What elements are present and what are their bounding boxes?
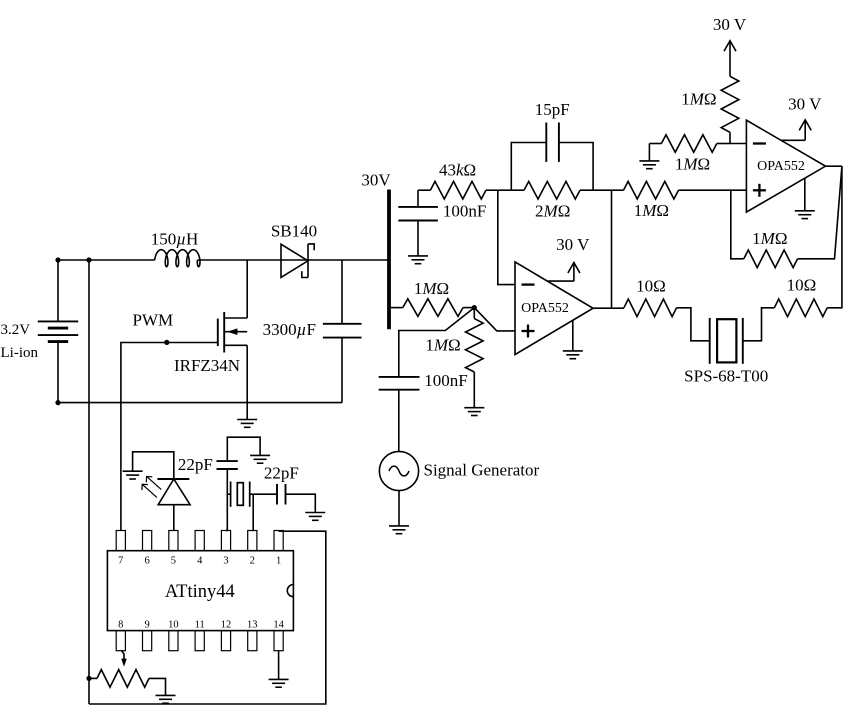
svg-text:1MΩ: 1MΩ [675, 155, 710, 174]
label 22pF C5 [178, 455, 213, 474]
node battery positive [55, 257, 60, 262]
svg-text:100nF: 100nF [424, 371, 467, 390]
wire feedback mid [498, 189, 524, 191]
svg-text:22pF: 22pF [264, 463, 299, 482]
svg-text:9: 9 [144, 619, 149, 630]
label 43kOhm [439, 161, 476, 180]
svg-text:1MΩ: 1MΩ [752, 229, 787, 248]
wire bottom rail [58, 402, 342, 404]
transistor Q1 IRFZ34N nmos [218, 312, 247, 420]
node 3.2V rail tap [86, 257, 91, 262]
capacitor C1 3300uF [323, 260, 362, 403]
label 1MOhm R10 [675, 155, 710, 174]
ground C2 [408, 256, 428, 264]
power 30V U1 [547, 263, 580, 282]
svg-text:5: 5 [171, 555, 176, 566]
svg-text:13: 13 [247, 619, 258, 630]
svg-text:30 V: 30 V [713, 15, 747, 34]
label 22pF C6 [264, 463, 299, 482]
svg-text:OPA552: OPA552 [521, 301, 569, 316]
label 1MOhm R9 [681, 89, 716, 108]
node divider [472, 305, 477, 310]
wire led to ground loop [133, 452, 174, 479]
label 3300uF [263, 320, 316, 339]
svg-text:3300µF: 3300µF [263, 320, 316, 339]
power 30V U2 [781, 120, 811, 141]
ground MOSFET source [237, 420, 257, 428]
label 100nF second [424, 371, 467, 390]
resistor R6 10 second [774, 299, 827, 317]
pin numbers U3 [118, 555, 284, 630]
label 1MOhm R7 [634, 201, 669, 220]
wire R3 to node [463, 307, 474, 309]
label 100nF first [443, 201, 486, 220]
wire node to 100nF [399, 308, 475, 377]
svg-text:100nF: 100nF [443, 201, 486, 220]
label 2MOhm [535, 201, 570, 220]
label 150uH [151, 230, 199, 249]
label 10Ohm R5 [636, 277, 666, 296]
capacitor C5 22pF [217, 461, 238, 494]
diode D1 SB140 schottky [281, 244, 314, 278]
wire minus wire U2 [730, 143, 746, 145]
label 30 V R9 [713, 15, 747, 34]
capacitor C2 100nF [398, 190, 438, 256]
svg-text:1: 1 [276, 555, 281, 566]
svg-text:PWM: PWM [132, 310, 173, 329]
wire 43k to minus corner [486, 189, 498, 191]
resistor R7 1M plus [624, 181, 679, 199]
resistor R4 1M vertical [466, 308, 484, 408]
wire sig gen to ground [398, 491, 400, 526]
label SB140 [271, 222, 317, 241]
ground R4 [464, 408, 484, 416]
svg-text:150µH: 150µH [151, 230, 199, 249]
svg-text:11: 11 [195, 619, 205, 630]
wire bus to R3 [391, 307, 403, 309]
bus bar 30V [387, 190, 391, 330]
wire U1 ground stub [572, 320, 574, 351]
label Signal Generator [424, 460, 540, 479]
wire cap2 to ground [286, 494, 316, 512]
resistor R2 2M [524, 181, 580, 199]
svg-text:3: 3 [223, 555, 228, 566]
svg-text:8: 8 [118, 619, 123, 630]
IC U3 ATtiny44 body [107, 531, 293, 651]
wire bottom loop [89, 531, 326, 704]
capacitor C3 15pF [511, 123, 593, 191]
svg-text:Li-ion: Li-ion [1, 345, 39, 361]
svg-text:10Ω: 10Ω [787, 276, 817, 295]
wire xtal left to pin3 [226, 494, 227, 530]
svg-text:30 V: 30 V [788, 95, 822, 114]
svg-text:43kΩ: 43kΩ [439, 161, 476, 180]
wire pot to ground [149, 678, 166, 695]
svg-text:1MΩ: 1MΩ [634, 201, 669, 220]
wire U1 output [593, 307, 624, 309]
wire node to plus input [474, 308, 515, 331]
label SPS-68-T00 [684, 367, 768, 386]
svg-text:30V: 30V [361, 170, 391, 189]
wire R5 to crystal [677, 308, 710, 341]
ground pin14 [269, 679, 289, 687]
node pot tap [86, 676, 91, 681]
svg-text:1MΩ: 1MΩ [425, 335, 460, 354]
wire PWM gate [121, 343, 218, 531]
label 30 V U1 [556, 235, 590, 254]
potentiometer R11 [89, 650, 149, 687]
wire U2 output [826, 165, 842, 167]
node battery negative [55, 400, 60, 405]
label OPA552 U1 [521, 301, 569, 316]
svg-text:1MΩ: 1MΩ [681, 89, 716, 108]
crystal X1 SPS-68-T00 [710, 318, 743, 364]
ground signal generator [389, 526, 409, 534]
svg-text:14: 14 [273, 619, 284, 630]
wire top rail battery to inductor [58, 259, 155, 261]
label 1MOhm R4 [425, 335, 460, 354]
ground led [123, 471, 143, 479]
power 30V R9 [724, 41, 736, 77]
wire 43k branch corner [418, 189, 430, 191]
led arrows [142, 477, 161, 498]
label IRFZ34N [174, 356, 240, 375]
ground U2 [795, 211, 815, 219]
ground R10 [639, 161, 659, 169]
wire pin14 ground [278, 651, 280, 680]
wire 2M to output drop [580, 189, 612, 191]
wire plus path start [612, 189, 624, 191]
op-amp U1 OPA552 [515, 262, 593, 355]
svg-text:2MΩ: 2MΩ [535, 201, 570, 220]
wire minus feedback drop [498, 190, 515, 284]
svg-text:SB140: SB140 [271, 222, 317, 241]
capacitor C6 22pF second [277, 484, 286, 505]
label 1MOhm R3 [414, 279, 449, 298]
label 30V [361, 170, 391, 189]
source SG1 signal generator [379, 451, 418, 490]
label 3.2V [1, 322, 31, 338]
svg-text:12: 12 [221, 619, 232, 630]
wire R8 to output slant [798, 166, 842, 259]
svg-text:15pF: 15pF [535, 100, 570, 119]
wire feedback drop U2 [731, 190, 744, 259]
label 15pF [535, 100, 570, 119]
wire R6 to output rail [827, 166, 842, 308]
resistor R1 43k [430, 181, 486, 199]
inductor L1 150uH [155, 250, 200, 267]
node PWM terminal [164, 340, 169, 345]
svg-text:2: 2 [250, 555, 255, 566]
battery B1 3.2V Li-ion [38, 260, 78, 403]
label Li-ion [1, 345, 39, 361]
wire xtal to cap2 [253, 493, 277, 495]
ground cap2 [305, 513, 325, 521]
wire xtal right to pin2 [251, 494, 254, 530]
ground potentiometer [156, 695, 176, 703]
resistor R9 1M pullup vertical [721, 76, 739, 143]
led D2 [157, 479, 190, 531]
wire R7 to op-amp2 [679, 189, 747, 191]
svg-text:10: 10 [168, 619, 179, 630]
capacitor C4 100nF lower [379, 377, 420, 452]
label 1MOhm R8 [752, 229, 787, 248]
svg-text:IRFZ34N: IRFZ34N [174, 356, 240, 375]
wire MOSFET drain [246, 260, 248, 318]
svg-text:30 V: 30 V [556, 235, 590, 254]
label PWM [132, 310, 173, 329]
wire cap1 top loop [227, 437, 260, 461]
svg-text:OPA552: OPA552 [757, 159, 805, 174]
wire crystal to R6 [743, 308, 775, 341]
label OPA552 U2 [757, 159, 805, 174]
ground cap1 [250, 455, 270, 463]
svg-text:3.2V: 3.2V [1, 322, 31, 338]
wire R10 ground stub [648, 144, 650, 161]
ground U1 [563, 351, 583, 359]
svg-text:ATtiny44: ATtiny44 [165, 582, 235, 602]
wire Vcc rail left [88, 260, 90, 704]
op-amp U2 OPA552 [746, 120, 825, 212]
svg-text:10Ω: 10Ω [636, 277, 666, 296]
crystal X2 [227, 482, 253, 507]
resistor R3 1M [403, 299, 463, 317]
label 10Ohm R6 [787, 276, 817, 295]
resistor R5 10 first [624, 299, 677, 317]
svg-text:6: 6 [144, 555, 149, 566]
svg-text:22pF: 22pF [178, 455, 213, 474]
wire U2 ground stub [804, 178, 806, 211]
resistor R10 1M to ground [649, 135, 730, 153]
svg-text:4: 4 [197, 555, 203, 566]
label ATtiny44 [165, 582, 235, 602]
svg-text:7: 7 [118, 555, 123, 566]
resistor R8 1M feedback [744, 250, 798, 268]
wire output feedback drop [611, 190, 613, 308]
svg-text:Signal Generator: Signal Generator [424, 460, 540, 479]
svg-text:1MΩ: 1MΩ [414, 279, 449, 298]
label 30 V U2 [788, 95, 822, 114]
svg-text:SPS-68-T00: SPS-68-T00 [684, 367, 768, 386]
wire top rail inductor to bus bar [197, 259, 388, 261]
